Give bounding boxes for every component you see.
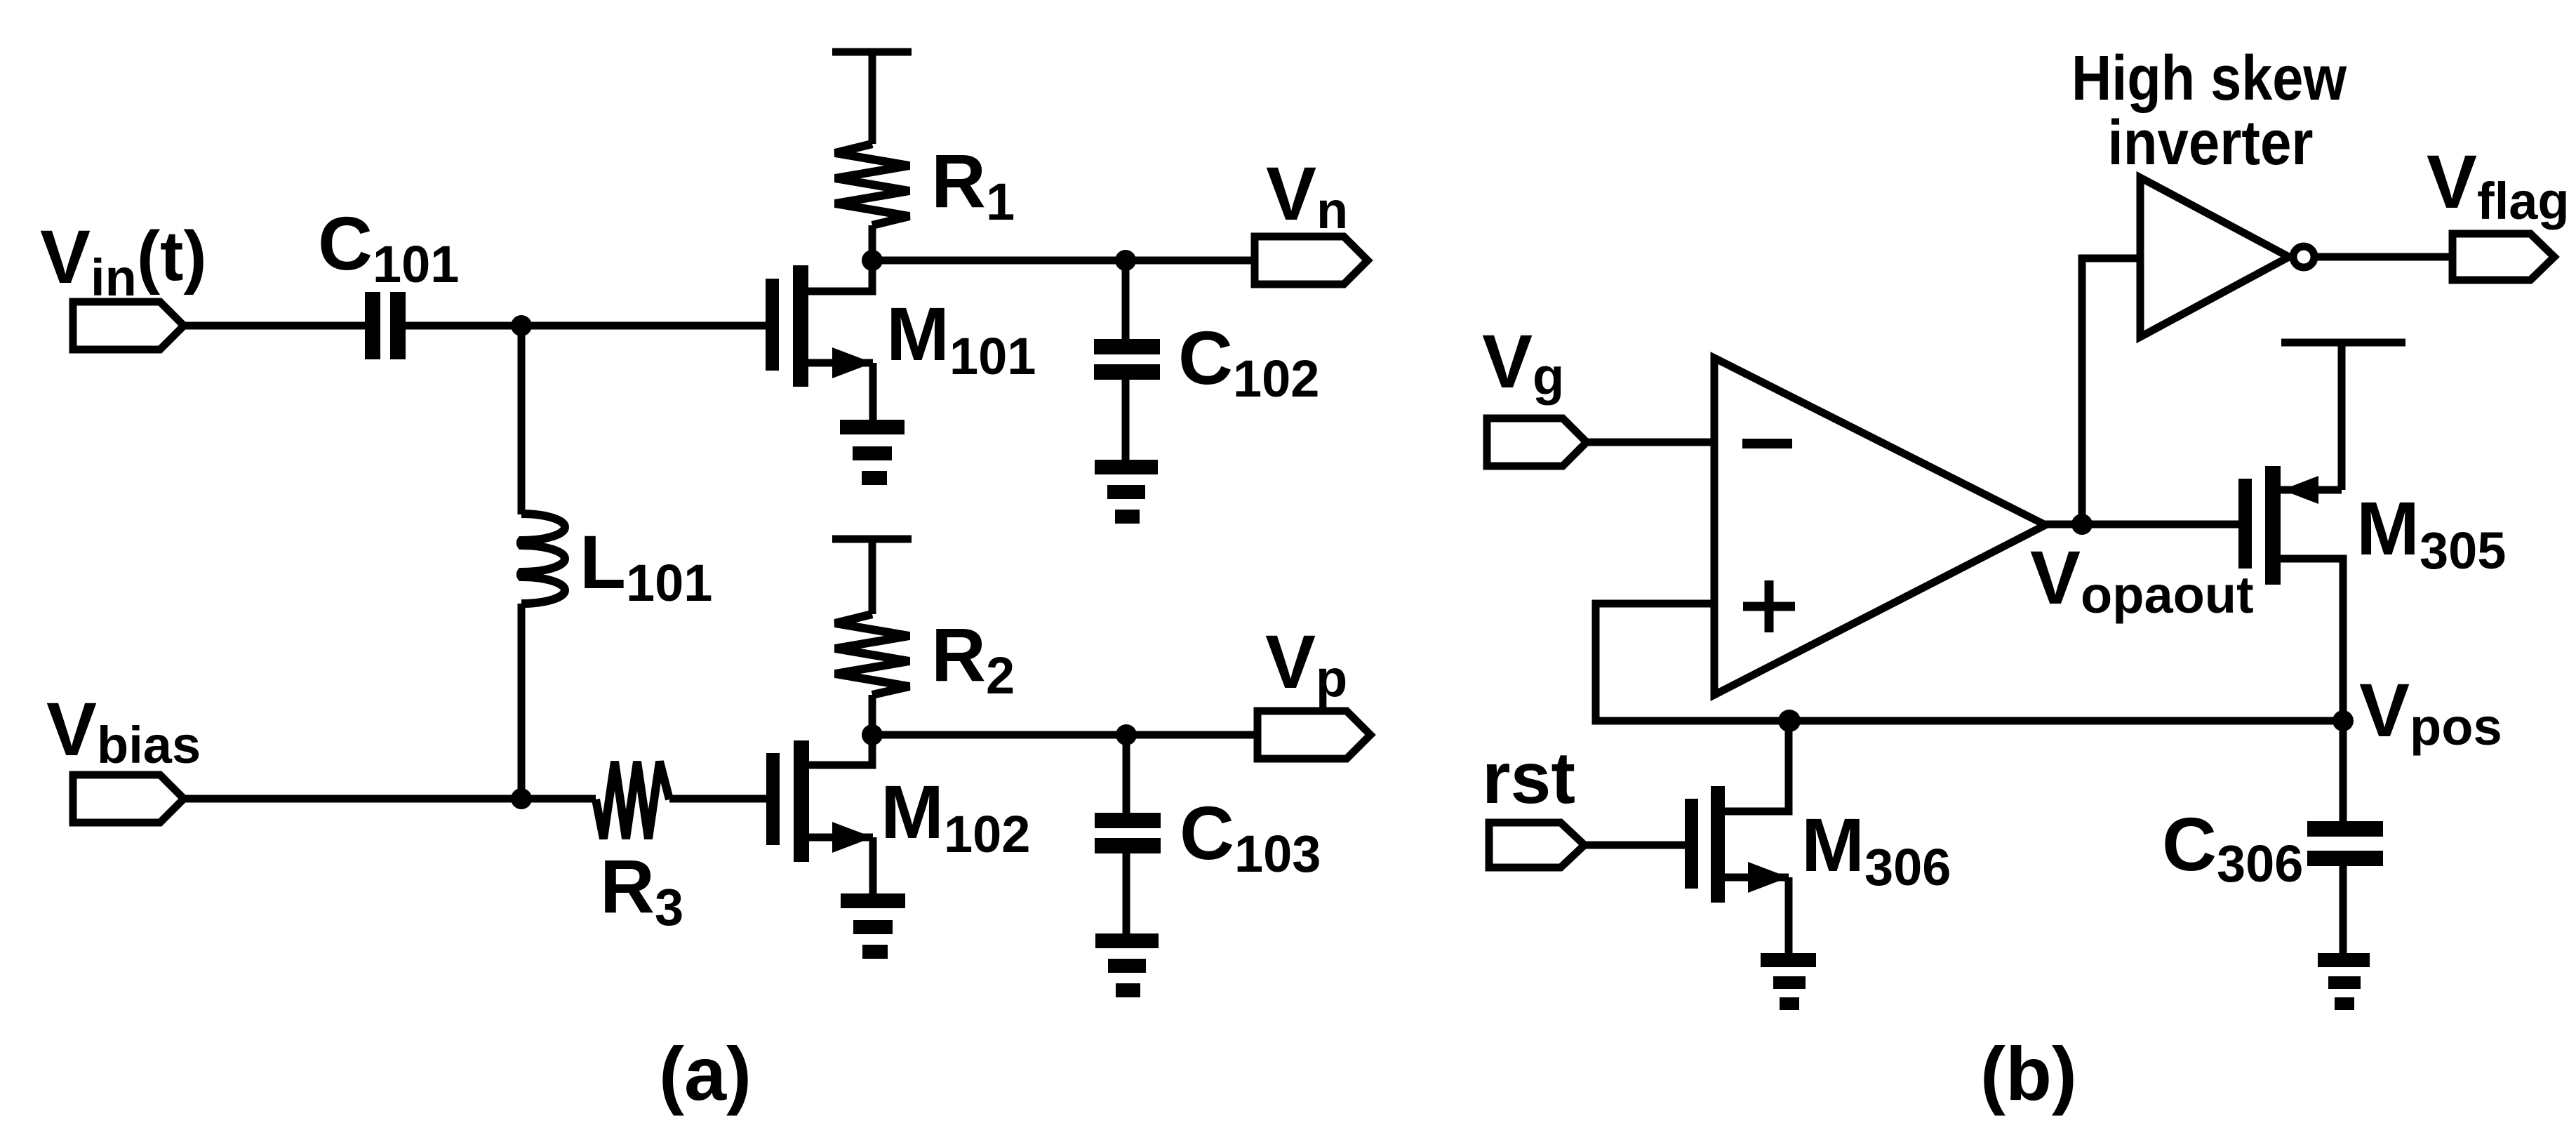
svg-text:Vpos: Vpos bbox=[2359, 667, 2502, 756]
port Vbias bbox=[73, 775, 184, 823]
label Vflag bbox=[2427, 139, 2570, 230]
label rst bbox=[1482, 738, 1575, 819]
junction C103 bbox=[1116, 724, 1137, 745]
capacitor C103 bbox=[1095, 813, 1161, 853]
svg-text:C101: C101 bbox=[318, 201, 459, 293]
wire node B to R3 bbox=[521, 795, 596, 803]
port Vn bbox=[1255, 237, 1368, 284]
op-amp plus sign bbox=[1743, 580, 1795, 632]
M101 source stub bbox=[808, 359, 873, 367]
svg-text:Vin(t): Vin(t) bbox=[40, 214, 207, 307]
ground under M101 bbox=[840, 420, 905, 485]
svg-text:M306: M306 bbox=[1801, 802, 1951, 896]
M102 channel bar bbox=[794, 740, 809, 862]
wire inverter to Vflag bbox=[2314, 253, 2452, 261]
M305 source stub bbox=[2281, 486, 2342, 494]
wire junction to Vp port bbox=[1126, 731, 1257, 739]
capacitor C306 bbox=[2307, 821, 2383, 866]
svg-text:High skew: High skew bbox=[2071, 44, 2347, 114]
resistor R1 bbox=[835, 144, 909, 225]
label Vpos bbox=[2359, 667, 2502, 756]
node Vopaout junction bbox=[2071, 514, 2093, 535]
wire R2 to drain node bbox=[869, 695, 876, 735]
wire R3 to M102 gate bbox=[669, 795, 766, 803]
svg-text:Vopaout: Vopaout bbox=[2030, 535, 2254, 624]
wire op-amp output bbox=[2046, 521, 2238, 529]
node A junction bbox=[511, 315, 532, 336]
ground under C306 bbox=[2318, 953, 2370, 1010]
svg-text:inverter: inverter bbox=[2108, 108, 2314, 178]
wire rst to M306 gate bbox=[1584, 842, 1685, 849]
svg-text:Vg: Vg bbox=[1482, 319, 1564, 406]
label (b) bbox=[1980, 1031, 2077, 1116]
label High skew inverter bbox=[2071, 44, 2347, 178]
label L101 bbox=[580, 519, 712, 612]
resistor R3 bbox=[596, 762, 669, 839]
wire junction to Vn port bbox=[1126, 257, 1255, 265]
port Vin bbox=[73, 302, 184, 350]
M102 drain stub bbox=[809, 735, 872, 765]
wire junction down to C103 bbox=[1123, 735, 1130, 813]
wire Vbias to node B bbox=[184, 795, 521, 803]
svg-text:Vp: Vp bbox=[1265, 619, 1347, 707]
M101 source arrow bbox=[832, 347, 873, 378]
VDD rail over R1 bbox=[832, 48, 912, 56]
wire drain node to C102 junction bbox=[872, 257, 1126, 265]
transistor M306 bbox=[1685, 721, 1789, 955]
svg-text:R3: R3 bbox=[600, 844, 683, 936]
wire junction up to inverter bbox=[2082, 258, 2137, 524]
inductor L101 bbox=[521, 514, 565, 604]
M305 gate bar bbox=[2238, 479, 2252, 569]
transistor M102 bbox=[766, 735, 873, 895]
label C102 bbox=[1178, 315, 1319, 408]
wire Vin to C101 bbox=[184, 322, 365, 330]
label Vg bbox=[1482, 319, 1564, 406]
svg-text:M102: M102 bbox=[881, 769, 1030, 863]
label M306 bbox=[1801, 802, 1951, 896]
label C101 bbox=[318, 201, 459, 293]
wire node A to M101 gate bbox=[521, 322, 766, 330]
node Vn junction (drain M101) bbox=[862, 250, 883, 271]
capacitor C101 bbox=[373, 292, 398, 359]
capacitor C102 bbox=[1094, 339, 1160, 380]
label M101 bbox=[886, 291, 1036, 385]
label Vopaout bbox=[2030, 535, 2254, 624]
wire C101 to node A bbox=[406, 322, 521, 330]
svg-text:C103: C103 bbox=[1180, 790, 1321, 883]
node Vpos junction bbox=[2333, 710, 2354, 731]
label (a) bbox=[659, 1031, 752, 1116]
label R2 bbox=[931, 612, 1015, 705]
wire Vg to op-amp minus input bbox=[1587, 439, 1711, 446]
label Vn bbox=[1266, 151, 1348, 239]
M306 source arrow bbox=[1748, 862, 1789, 893]
svg-text:(b): (b) bbox=[1980, 1031, 2077, 1116]
M102 source arrow bbox=[832, 822, 873, 853]
M305 source arrow (PMOS, points into channel) bbox=[2282, 476, 2318, 504]
label M305 bbox=[2356, 486, 2506, 580]
wire drain node to C103 junction bbox=[872, 731, 1126, 739]
label Vp bbox=[1265, 619, 1347, 707]
M102 source wire down bbox=[869, 837, 877, 895]
M306 gate bar bbox=[1685, 799, 1698, 889]
wire C102 to ground bbox=[1122, 380, 1130, 461]
VDD rail over R2 bbox=[832, 536, 912, 543]
svg-text:L101: L101 bbox=[580, 519, 712, 612]
M306 channel bar bbox=[1711, 786, 1725, 903]
label C103 bbox=[1180, 790, 1321, 883]
M306 drain stub bbox=[1725, 721, 1789, 811]
label Vbias bbox=[46, 686, 201, 774]
label R3 bbox=[600, 844, 683, 936]
wire rail to R2 bbox=[869, 539, 876, 614]
wire Vpos to C306 bbox=[2340, 721, 2347, 821]
M101 drain stub bbox=[808, 260, 872, 291]
M305 drain stub bbox=[2281, 559, 2343, 721]
M102 source stub bbox=[809, 834, 873, 842]
resistor R2 bbox=[835, 614, 909, 695]
ground under C103 bbox=[1095, 933, 1159, 997]
port Vg bbox=[1487, 418, 1587, 466]
op-amp minus sign bbox=[1742, 439, 1792, 448]
junction C102 bbox=[1115, 250, 1136, 271]
M102 gate bar bbox=[766, 753, 780, 845]
port Vp bbox=[1257, 711, 1370, 759]
wire C306 to ground bbox=[2340, 866, 2347, 955]
svg-text:R1: R1 bbox=[931, 138, 1015, 231]
svg-text:Vbias: Vbias bbox=[46, 686, 201, 774]
node B junction bbox=[511, 788, 532, 809]
wire plus input feedback bbox=[1596, 604, 2343, 721]
label M102 bbox=[881, 769, 1030, 863]
svg-text:C102: C102 bbox=[1178, 315, 1319, 408]
svg-text:R2: R2 bbox=[931, 612, 1015, 705]
VDD rail over M305 bbox=[2281, 339, 2405, 347]
wire junction down to C102 bbox=[1122, 260, 1130, 339]
wire rail to M305 source bbox=[2338, 343, 2346, 490]
wire node A down to L101 bbox=[518, 326, 526, 514]
transistor M101 bbox=[766, 260, 873, 421]
ground under M102 bbox=[841, 893, 905, 959]
inverter U2 bbox=[2140, 178, 2289, 337]
wire R1 to drain node bbox=[869, 225, 876, 260]
svg-text:M305: M305 bbox=[2356, 486, 2506, 580]
label C306 bbox=[2162, 802, 2303, 893]
label Vin(t) bbox=[40, 214, 207, 307]
svg-text:rst: rst bbox=[1482, 738, 1575, 819]
wire C103 to ground bbox=[1123, 853, 1130, 935]
op-amp U1 bbox=[1714, 358, 2046, 695]
junction M306 drain on feedback bbox=[1778, 710, 1801, 732]
port rst bbox=[1489, 823, 1584, 868]
svg-text:Vn: Vn bbox=[1266, 151, 1348, 239]
M101 gate bar bbox=[766, 279, 779, 371]
label R1 bbox=[931, 138, 1015, 231]
wire L101 to node B bbox=[518, 604, 526, 799]
transistor M305 bbox=[2238, 466, 2343, 721]
ground under C102 bbox=[1095, 460, 1158, 524]
wire rail to R1 bbox=[869, 52, 876, 144]
M101 source wire down bbox=[869, 363, 877, 421]
M306 source wire down bbox=[1785, 877, 1793, 955]
svg-text:M101: M101 bbox=[886, 291, 1036, 385]
M305 channel bar bbox=[2265, 466, 2281, 585]
ground under M306 bbox=[1761, 953, 1816, 1010]
svg-text:Vflag: Vflag bbox=[2427, 139, 2570, 230]
port Vflag bbox=[2452, 234, 2554, 280]
node Vp junction (drain M102) bbox=[862, 724, 883, 745]
svg-text:C306: C306 bbox=[2162, 802, 2303, 893]
M306 source stub bbox=[1725, 874, 1789, 882]
M101 channel bar bbox=[793, 265, 808, 387]
inverter output bubble bbox=[2293, 246, 2314, 267]
svg-text:(a): (a) bbox=[659, 1031, 752, 1116]
